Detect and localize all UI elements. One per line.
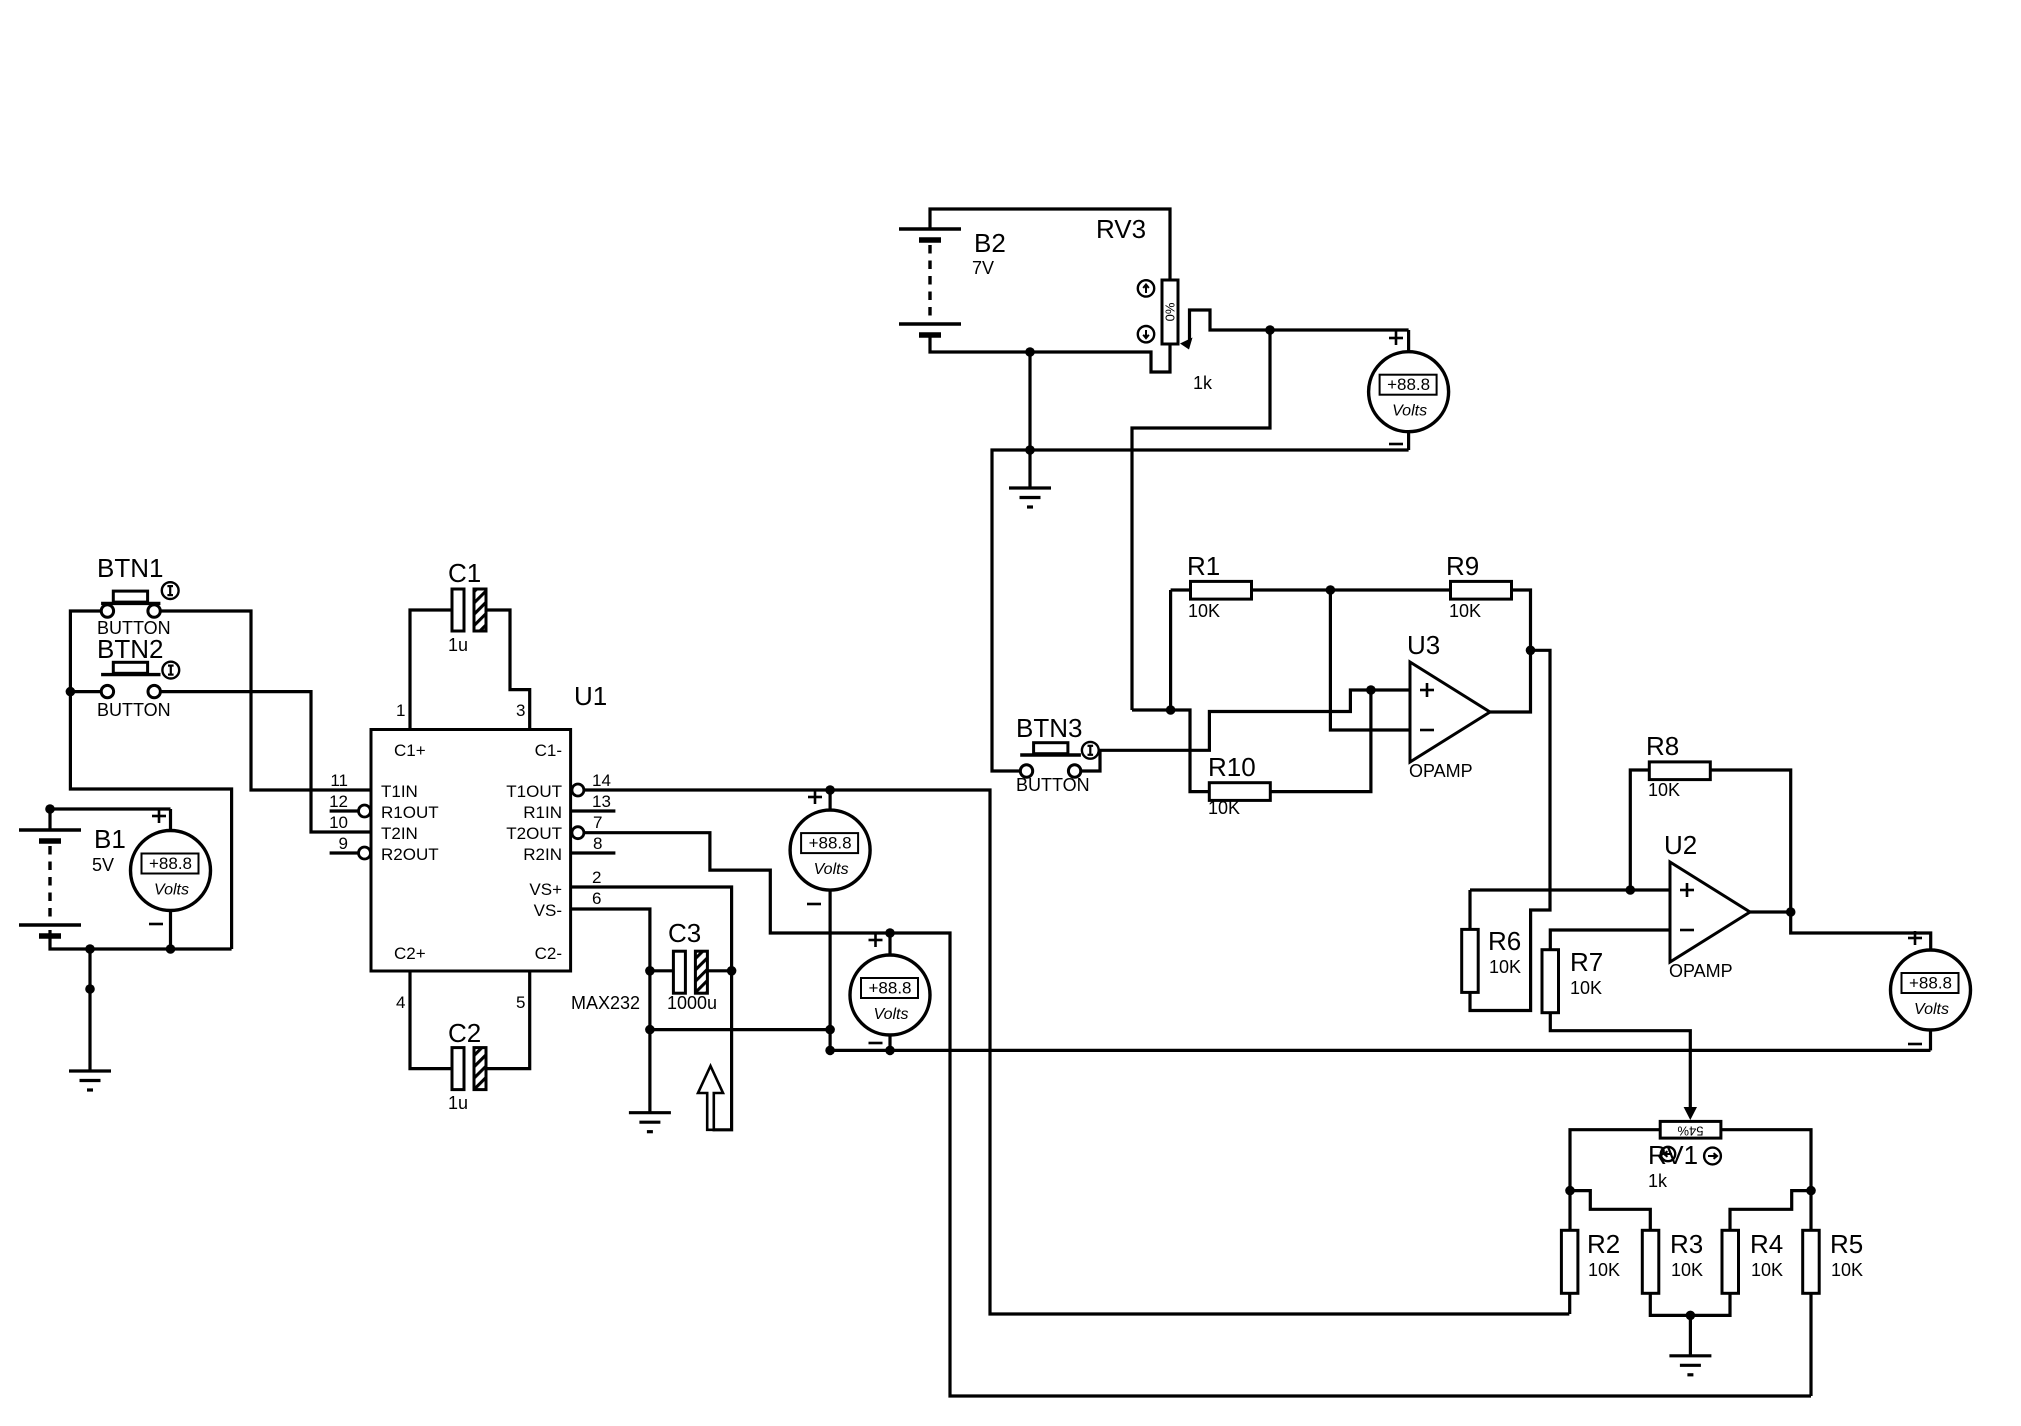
svg-text:2: 2 bbox=[592, 868, 601, 887]
svg-text:C3: C3 bbox=[668, 918, 701, 948]
node R1-R9 bbox=[1326, 585, 1336, 595]
svg-text:Volts: Volts bbox=[1914, 1001, 1949, 1018]
svg-text:10K: 10K bbox=[1449, 601, 1481, 621]
svg-text:10K: 10K bbox=[1648, 780, 1680, 800]
ground bbox=[69, 1069, 111, 1072]
resistor R1 bbox=[1171, 588, 1191, 591]
node RV1 left bbox=[1565, 1186, 1575, 1196]
wire VS- to C3 left and ground bbox=[571, 909, 650, 1113]
U1 pin 12 R1OUT stub bbox=[330, 809, 359, 812]
svg-text:T1OUT: T1OUT bbox=[506, 782, 562, 801]
svg-text:10K: 10K bbox=[1489, 957, 1521, 977]
node ground net junction bbox=[1025, 445, 1035, 455]
capacitor C3 bbox=[650, 969, 674, 972]
node U3 feedback bbox=[1526, 646, 1536, 656]
button BTN3 bbox=[1020, 753, 1081, 756]
svg-text:OPAMP: OPAMP bbox=[1409, 761, 1473, 781]
voltmeter RV3 meter bbox=[1407, 330, 1410, 352]
svg-text:Volts: Volts bbox=[874, 1006, 909, 1023]
wire BTN2 node down around B1 bbox=[70, 692, 231, 949]
op-amp U2 bbox=[1670, 862, 1750, 962]
wire U3 output bbox=[1490, 650, 1531, 712]
svg-text:10K: 10K bbox=[1751, 1260, 1783, 1280]
svg-text:BTN1: BTN1 bbox=[97, 553, 163, 583]
svg-text:T1IN: T1IN bbox=[381, 782, 418, 801]
svg-text:1: 1 bbox=[396, 701, 405, 720]
power arrow terminal bbox=[698, 1066, 723, 1130]
ground bbox=[1689, 1315, 1692, 1355]
svg-text:7V: 7V bbox=[972, 258, 994, 278]
svg-text:3: 3 bbox=[516, 701, 525, 720]
wire BTN3 to noninverting U3 bbox=[1081, 690, 1410, 771]
resistor R7 bbox=[1542, 950, 1559, 1013]
capacitor C2 bbox=[410, 971, 452, 1069]
svg-text:12: 12 bbox=[329, 792, 348, 811]
node RV3 wiper junction bbox=[1265, 325, 1275, 335]
wire meter- to BTN3 bbox=[992, 450, 1409, 771]
wire to ground bbox=[88, 949, 91, 1071]
node meter2 plus bbox=[825, 785, 835, 795]
svg-text:R1OUT: R1OUT bbox=[381, 803, 439, 822]
wire minus rail bbox=[832, 1049, 1931, 1052]
voltmeter B1 meter bbox=[169, 809, 172, 831]
wire VS- rail bbox=[650, 1028, 830, 1031]
svg-text:+88.8: +88.8 bbox=[1387, 375, 1430, 394]
svg-text:+88.8: +88.8 bbox=[868, 979, 911, 998]
svg-text:MAX232: MAX232 bbox=[571, 993, 640, 1013]
potentiometer RV3 bbox=[1162, 280, 1178, 344]
resistor R5 bbox=[1803, 1230, 1820, 1293]
svg-text:C2+: C2+ bbox=[394, 944, 426, 963]
node R3-R4 ground bbox=[1686, 1311, 1696, 1321]
svg-text:T2IN: T2IN bbox=[381, 824, 418, 843]
U1 pin 14 T1OUT bubble bbox=[572, 784, 584, 796]
resistor R2 bbox=[1561, 1230, 1578, 1293]
op-amp U3 bbox=[1410, 662, 1490, 762]
svg-text:C1: C1 bbox=[448, 558, 481, 588]
svg-text:B1: B1 bbox=[94, 824, 126, 854]
wire RV1 left bbox=[1570, 1130, 1660, 1231]
svg-text:U1: U1 bbox=[574, 681, 607, 711]
svg-text:B2: B2 bbox=[974, 228, 1006, 258]
svg-text:10K: 10K bbox=[1588, 1260, 1620, 1280]
wire B2+ to RV3 top bbox=[930, 209, 1170, 280]
node RV1 right bbox=[1806, 1186, 1816, 1196]
potentiometer RV1 bbox=[1660, 1121, 1721, 1138]
node U2 out bbox=[1786, 907, 1796, 917]
wire R1 left up bbox=[1169, 590, 1172, 710]
svg-text:5: 5 bbox=[516, 993, 525, 1012]
capacitor C1 bbox=[410, 610, 452, 730]
node C3 left bbox=[645, 966, 655, 976]
resistor R10 bbox=[1209, 783, 1270, 801]
svg-text:Volts: Volts bbox=[1392, 403, 1427, 420]
resistor R8 bbox=[1630, 770, 1649, 890]
wire inverting input U3 bbox=[1330, 590, 1410, 730]
resistor R4 bbox=[1722, 1230, 1739, 1293]
svg-text:R1IN: R1IN bbox=[523, 803, 562, 822]
node M2 minus rail2 bbox=[825, 1046, 835, 1056]
svg-text:14: 14 bbox=[592, 771, 611, 790]
wire B2- bottom bbox=[930, 335, 1170, 372]
svg-text:+88.8: +88.8 bbox=[149, 854, 192, 873]
svg-text:C2: C2 bbox=[448, 1018, 481, 1048]
node M3 minus bbox=[885, 1046, 895, 1056]
svg-text:6: 6 bbox=[592, 889, 601, 908]
svg-text:Volts: Volts bbox=[154, 882, 189, 899]
svg-text:R2OUT: R2OUT bbox=[381, 845, 439, 864]
wire node A bbox=[1132, 710, 1209, 792]
svg-text:10: 10 bbox=[329, 813, 348, 832]
RV1 wiper arrow bbox=[1684, 1107, 1697, 1120]
svg-text:BTN2: BTN2 bbox=[97, 634, 163, 664]
svg-text:10K: 10K bbox=[1188, 601, 1220, 621]
svg-text:RV1: RV1 bbox=[1648, 1140, 1698, 1170]
U1 pin 9 R2OUT stub bbox=[330, 851, 359, 854]
svg-text:8: 8 bbox=[593, 834, 602, 853]
IC U1 body bbox=[371, 730, 571, 972]
wire BTN2 right to T2IN bbox=[160, 692, 371, 832]
wire wiper to node A bbox=[1132, 330, 1270, 710]
voltmeter M3 bbox=[888, 933, 891, 955]
svg-text:7: 7 bbox=[593, 813, 602, 832]
svg-text:5V: 5V bbox=[92, 855, 114, 875]
svg-text:1000u: 1000u bbox=[667, 993, 717, 1013]
node R8 left bbox=[1626, 885, 1636, 895]
svg-text:C1+: C1+ bbox=[394, 741, 426, 760]
wire BTN1 left bbox=[70, 611, 101, 692]
wire to R3 top bbox=[1570, 1191, 1650, 1231]
wire U3 out to R6 bbox=[1470, 650, 1550, 1010]
node A junction bbox=[1166, 705, 1176, 715]
node meter3 plus bbox=[885, 928, 895, 938]
svg-text:R2: R2 bbox=[1587, 1229, 1620, 1259]
svg-text:BTN3: BTN3 bbox=[1016, 713, 1082, 743]
svg-text:1u: 1u bbox=[448, 635, 468, 655]
wire U2 output bbox=[1750, 910, 1791, 913]
svg-text:1k: 1k bbox=[1193, 373, 1213, 393]
battery B2 bbox=[899, 227, 961, 231]
ground bbox=[1028, 450, 1031, 488]
battery B1 bbox=[19, 828, 81, 832]
svg-text:R10: R10 bbox=[1208, 752, 1256, 782]
wire VS+ to C3 right bbox=[571, 887, 732, 1130]
node B2- junction bbox=[1025, 347, 1035, 357]
svg-text:0%: 0% bbox=[1163, 302, 1178, 321]
node BTN2 left junction bbox=[66, 687, 76, 697]
svg-text:R7: R7 bbox=[1570, 947, 1603, 977]
svg-text:13: 13 bbox=[592, 792, 611, 811]
wire down to ground net bbox=[1028, 352, 1031, 450]
wire T2OUT to meter3 and bottom rail bbox=[584, 833, 1811, 1396]
svg-text:11: 11 bbox=[330, 771, 348, 790]
svg-text:R4: R4 bbox=[1750, 1229, 1783, 1259]
svg-text:10K: 10K bbox=[1208, 798, 1240, 818]
svg-text:54%: 54% bbox=[1677, 1124, 1703, 1139]
resistor R3 bbox=[1642, 1230, 1659, 1293]
svg-text:R6: R6 bbox=[1488, 926, 1521, 956]
svg-text:U3: U3 bbox=[1407, 630, 1440, 660]
svg-text:R3: R3 bbox=[1670, 1229, 1703, 1259]
svg-text:BUTTON: BUTTON bbox=[1016, 775, 1090, 795]
svg-text:1u: 1u bbox=[448, 1093, 468, 1113]
wire BTN1 right to T1IN bbox=[160, 611, 371, 790]
svg-text:R2IN: R2IN bbox=[523, 845, 562, 864]
button BTN1 bbox=[101, 602, 160, 605]
wire B1- bottom bbox=[50, 930, 232, 949]
wire B1+ top bbox=[50, 809, 171, 830]
svg-text:VS-: VS- bbox=[534, 901, 562, 920]
resistor R9 bbox=[1330, 588, 1450, 591]
wire to R4 top bbox=[1730, 1191, 1811, 1231]
button BTN2 bbox=[101, 673, 160, 676]
wire noninverting U2 bbox=[1470, 888, 1670, 891]
wire BTN2 left pin bbox=[70, 690, 101, 693]
svg-text:R8: R8 bbox=[1646, 731, 1679, 761]
voltmeter M2 bbox=[828, 790, 831, 811]
svg-text:OPAMP: OPAMP bbox=[1669, 961, 1733, 981]
svg-text:R9: R9 bbox=[1446, 551, 1479, 581]
svg-text:VS+: VS+ bbox=[529, 880, 562, 899]
RV3 wiper arrow bbox=[1180, 338, 1193, 350]
node R10 right bbox=[1366, 685, 1376, 695]
svg-text:R1: R1 bbox=[1187, 551, 1220, 581]
svg-text:RV3: RV3 bbox=[1096, 214, 1146, 244]
svg-text:4: 4 bbox=[396, 993, 405, 1012]
wire R7 to RV1 wiper bbox=[1550, 1012, 1690, 1108]
wire U2 out to meter4 bbox=[1791, 912, 1931, 950]
svg-text:U2: U2 bbox=[1664, 830, 1697, 860]
svg-text:10K: 10K bbox=[1570, 978, 1602, 998]
svg-text:1k: 1k bbox=[1648, 1171, 1668, 1191]
svg-text:9: 9 bbox=[339, 834, 348, 853]
wire T1OUT to meter and R2 bbox=[584, 790, 1569, 1314]
resistor R6 bbox=[1462, 929, 1479, 992]
svg-text:+88.8: +88.8 bbox=[809, 834, 852, 853]
svg-text:+88.8: +88.8 bbox=[1909, 974, 1952, 993]
svg-text:Volts: Volts bbox=[814, 861, 849, 878]
svg-text:10K: 10K bbox=[1671, 1260, 1703, 1280]
svg-text:C2-: C2- bbox=[535, 944, 562, 963]
U1 pin 7 T2OUT bubble bbox=[572, 827, 584, 839]
svg-text:C1-: C1- bbox=[535, 741, 562, 760]
svg-text:R5: R5 bbox=[1830, 1229, 1863, 1259]
wire RV1 right bbox=[1721, 1130, 1811, 1231]
voltmeter M4 bbox=[1891, 950, 1971, 1030]
node M2 minus rail1 bbox=[825, 1025, 835, 1035]
U1 pin 8 R2IN stub bbox=[571, 851, 616, 854]
svg-text:10K: 10K bbox=[1831, 1260, 1863, 1280]
node VS- rail junction bbox=[645, 1025, 655, 1035]
node C3 right bbox=[727, 966, 737, 976]
svg-text:BUTTON: BUTTON bbox=[97, 700, 171, 720]
ground bbox=[629, 1111, 671, 1114]
svg-text:T2OUT: T2OUT bbox=[506, 824, 562, 843]
U1 pin 13 R1IN stub bbox=[571, 809, 616, 812]
